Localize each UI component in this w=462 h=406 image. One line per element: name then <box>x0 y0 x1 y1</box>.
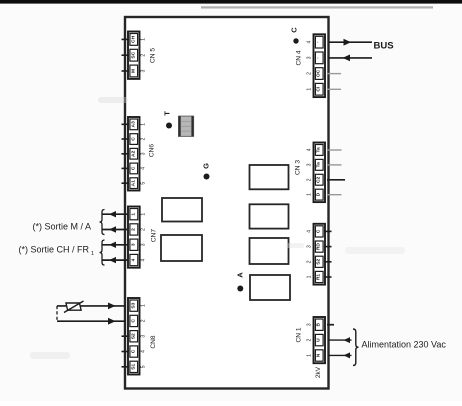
svg-text:R1: R1 <box>316 274 322 281</box>
svg-text:N: N <box>316 353 322 357</box>
svg-text:U: U <box>316 338 322 342</box>
svg-text:A: A <box>236 272 245 278</box>
node C <box>290 27 299 44</box>
label BUS <box>374 41 394 52</box>
svg-text:3: 3 <box>307 56 313 59</box>
svg-text:2: 2 <box>307 72 313 75</box>
svg-text:C: C <box>130 166 136 170</box>
thermistor sensor symbol <box>64 301 84 313</box>
connector CN2 <box>307 224 332 285</box>
svg-text:B: B <box>316 322 322 326</box>
node G <box>201 163 210 180</box>
svg-text:1: 1 <box>141 304 147 307</box>
connector CN7 <box>128 207 157 268</box>
svg-text:2: 2 <box>307 338 313 341</box>
connector CN1 <box>296 317 326 363</box>
svg-text:SC: SC <box>130 51 136 58</box>
wire sensor return (dashed) <box>56 306 58 321</box>
wire CN7 pin 3 <box>102 242 129 248</box>
svg-text:S1: S1 <box>130 364 136 370</box>
svg-text:A3: A3 <box>130 121 136 128</box>
wire mains L (CN1 pin 2) <box>329 337 352 343</box>
svg-text:1: 1 <box>141 213 147 216</box>
board outline <box>125 17 329 389</box>
svg-text:C2: C2 <box>316 176 322 183</box>
svg-text:3: 3 <box>141 152 147 155</box>
brace Sortie CH/FR <box>100 240 105 265</box>
label Sortie CH/FR <box>18 245 94 258</box>
header gray rule <box>201 6 433 8</box>
svg-text:C: C <box>130 349 136 353</box>
connector CN3 <box>295 143 326 203</box>
wire CN7 pin 1 <box>102 211 129 217</box>
svg-text:S2: S2 <box>130 333 136 339</box>
BUS wire in (CN4 pin 3) <box>329 55 373 62</box>
svg-text:4: 4 <box>141 258 147 261</box>
svg-text:(*) Sortie CH / FR: (*) Sortie CH / FR <box>18 245 89 255</box>
transformer block <box>179 116 194 136</box>
svg-text:2: 2 <box>141 319 147 322</box>
node T <box>163 111 173 129</box>
svg-text:3: 3 <box>307 245 313 248</box>
svg-text:2: 2 <box>141 54 147 57</box>
relay K5 <box>250 238 289 264</box>
CN4 pin 1 stub <box>327 88 341 90</box>
svg-text:BUS: BUS <box>374 41 394 52</box>
svg-text:2: 2 <box>307 260 313 263</box>
svg-text:3: 3 <box>141 335 147 338</box>
svg-text:T: T <box>163 111 172 116</box>
svg-text:1: 1 <box>91 251 94 257</box>
svg-text:CN8: CN8 <box>150 335 157 349</box>
svg-text:A2: A2 <box>130 150 136 157</box>
svg-text:C: C <box>130 137 136 141</box>
relay K4 <box>250 204 289 228</box>
svg-text:CN 1: CN 1 <box>296 327 303 342</box>
svg-text:3: 3 <box>307 323 313 326</box>
CN3 pin 2 stub <box>327 179 345 181</box>
svg-text:1: 1 <box>141 38 147 41</box>
svg-text:1: 1 <box>141 123 147 126</box>
wire CN7 pin 2 <box>102 226 129 232</box>
svg-text:CN 5: CN 5 <box>149 48 156 63</box>
connector CN6 <box>122 117 156 191</box>
svg-text:OC: OC <box>316 69 322 77</box>
svg-text:3: 3 <box>141 243 147 246</box>
svg-text:Ta: Ta <box>316 147 322 153</box>
svg-text:5: 5 <box>141 182 147 185</box>
svg-text:1: 1 <box>130 213 136 216</box>
svg-text:C: C <box>316 229 322 233</box>
CN3 pin 4 stub <box>327 149 342 151</box>
svg-text:4: 4 <box>141 350 147 353</box>
relay K2 <box>161 235 202 261</box>
svg-text:1: 1 <box>307 275 313 278</box>
svg-text:4: 4 <box>307 148 313 151</box>
connector CN5 <box>122 32 157 79</box>
svg-text:CN 3: CN 3 <box>295 160 302 175</box>
svg-text:S3: S3 <box>130 302 136 308</box>
svg-text:2: 2 <box>130 228 136 231</box>
brace Alimentation <box>353 329 359 366</box>
svg-text:M: M <box>130 69 136 73</box>
svg-text:1: 1 <box>307 354 313 357</box>
wire sensor to CN8 pin 2 <box>57 318 126 325</box>
label 2kV <box>315 366 322 378</box>
svg-text:2: 2 <box>141 228 147 231</box>
connector CN8 <box>122 298 158 375</box>
svg-text:Ta: Ta <box>316 162 322 168</box>
wire mains N (CN1 pin 1) <box>329 352 352 358</box>
svg-text:(*) Sortie M / A: (*) Sortie M / A <box>32 222 91 232</box>
svg-text:C: C <box>290 27 299 33</box>
node A <box>236 272 245 292</box>
wire sensor to CN8 pin 1 <box>57 303 126 310</box>
svg-text:4: 4 <box>130 258 136 261</box>
CN1 pin 3 stub <box>327 324 334 326</box>
svg-text:2kV: 2kV <box>315 366 322 378</box>
svg-text:D: D <box>316 192 322 196</box>
svg-text:2: 2 <box>141 137 147 140</box>
svg-text:C: C <box>130 319 136 323</box>
CN3 pin 1 stub <box>327 194 342 196</box>
svg-text:Alimentation 230 Vac: Alimentation 230 Vac <box>362 340 447 350</box>
svg-text:4: 4 <box>141 167 147 170</box>
svg-text:3: 3 <box>307 163 313 166</box>
label Sortie M/A <box>32 222 91 232</box>
svg-text:5: 5 <box>141 365 147 368</box>
svg-text:3: 3 <box>130 243 136 246</box>
relay K6 <box>250 275 290 300</box>
brace Sortie M/A <box>100 210 105 235</box>
svg-text:CI: CI <box>316 86 322 92</box>
svg-text:1: 1 <box>307 88 313 91</box>
svg-text:CN7: CN7 <box>150 229 157 243</box>
CN4 pin 2 stub <box>327 73 341 75</box>
relay K1 <box>162 198 202 222</box>
svg-text:4: 4 <box>307 40 313 43</box>
connector CN4 <box>296 34 326 97</box>
svg-text:3: 3 <box>141 69 147 72</box>
svg-text:4: 4 <box>307 230 313 233</box>
page top rule <box>0 0 462 4</box>
svg-text:CN6: CN6 <box>149 144 156 158</box>
svg-text:RD: RD <box>316 243 322 251</box>
wire CN7 pin 4 <box>102 257 129 263</box>
svg-text:1: 1 <box>307 193 313 196</box>
relay K3 <box>250 165 289 189</box>
svg-text:CN 4: CN 4 <box>296 50 303 65</box>
BUS wire out (CN4 pin 4) <box>329 39 373 46</box>
svg-text:A1: A1 <box>130 180 136 187</box>
svg-text:S2: S2 <box>316 259 322 265</box>
svg-text:2: 2 <box>307 178 313 181</box>
svg-text:CH: CH <box>130 35 136 43</box>
label Alimentation 230 Vac <box>362 340 447 350</box>
CN3 pin 3 stub <box>327 164 342 166</box>
svg-text:G: G <box>201 163 210 169</box>
